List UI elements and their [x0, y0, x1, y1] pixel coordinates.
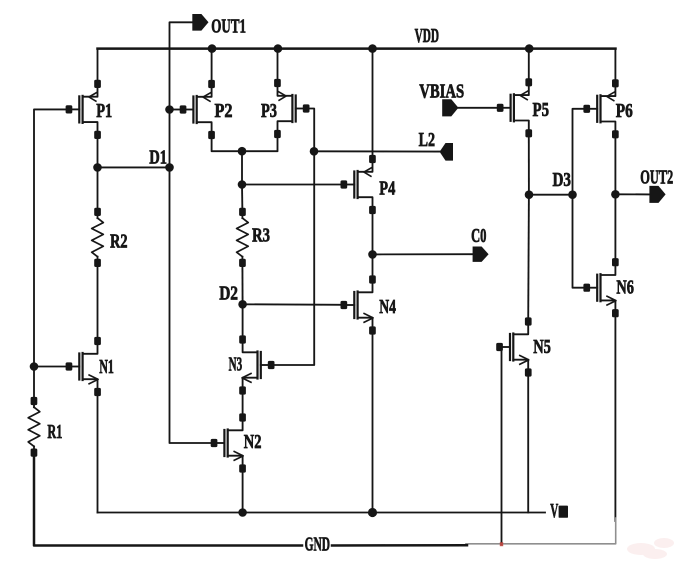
- junction N1 gate tap: [30, 362, 39, 371]
- transistor P4: [341, 155, 396, 214]
- node D3 label: [553, 169, 572, 191]
- node D2 label: [219, 283, 238, 305]
- transistor N1: [66, 337, 114, 396]
- node VDD label: [415, 25, 439, 47]
- wire N3 source to N2 drain: [242, 391, 244, 418]
- wire OUT1 stem: [170, 22, 193, 109]
- svg-text:C0: C0: [471, 225, 486, 247]
- transistor N2: [211, 413, 262, 472]
- artifact red tick: [500, 542, 503, 546]
- node VII label: [550, 500, 568, 522]
- junction D1 left: [93, 163, 102, 172]
- junction CO node: [368, 250, 377, 259]
- svg-text:D2: D2: [219, 283, 238, 305]
- terminal VBIAS: [442, 99, 458, 116]
- junction P4 gate tap: [238, 180, 247, 189]
- svg-text:P2: P2: [215, 100, 233, 122]
- terminal OUT2: [649, 186, 665, 203]
- wire VDD drop to P3 source: [277, 49, 279, 83]
- wire P6 drain to OUT2: [614, 133, 616, 195]
- wire N4 source to VII: [372, 332, 374, 513]
- wire left bias rail top (P1 gate): [34, 109, 69, 366]
- svg-text:N6: N6: [616, 277, 634, 299]
- svg-text:R2: R2: [110, 231, 128, 253]
- svg-text:N3: N3: [229, 353, 243, 375]
- svg-text:R3: R3: [252, 225, 270, 247]
- wire N1 source to VII rail: [97, 392, 99, 513]
- svg-text:D3: D3: [553, 169, 572, 191]
- wire D3 to N6 gate: [573, 195, 587, 288]
- svg-text:D1: D1: [149, 146, 167, 168]
- wire D3 down to N5 drain: [527, 195, 530, 322]
- transistor N6: [583, 258, 634, 317]
- wire N5 gate down to GND: [501, 347, 503, 544]
- node VBIAS label: [419, 81, 464, 103]
- wire VDD drop to P1 source: [97, 49, 99, 84]
- svg-text:P5: P5: [533, 99, 550, 121]
- wire P3 gate to L2 node: [307, 109, 315, 152]
- node GND label: [305, 534, 330, 556]
- wire N1 gate: [34, 366, 70, 368]
- junction D1 right: [165, 163, 174, 172]
- wire D3 to P6 gate: [573, 109, 584, 195]
- svg-text:OUT1: OUT1: [211, 15, 246, 37]
- svg-text:R1: R1: [47, 421, 62, 443]
- junction L2 node: [310, 147, 319, 156]
- node L2 label: [419, 129, 435, 151]
- junction D3 right: [568, 190, 577, 199]
- wire N2 source to VII: [242, 469, 244, 513]
- junction VII-N4: [368, 508, 377, 517]
- wire OUT1 column to D1: [169, 110, 171, 168]
- junction VII-N2: [238, 508, 247, 517]
- wire R2 to N1 drain: [97, 263, 99, 341]
- junction VDD-P2: [208, 44, 217, 53]
- wire VII rail: [98, 512, 546, 514]
- junction P2 gate tap: [165, 105, 174, 114]
- transistor P5: [497, 78, 549, 137]
- node D1 label: [149, 146, 167, 168]
- wire VBIAS to P5 gate: [458, 107, 498, 109]
- wire D3 horizontal: [529, 194, 573, 196]
- svg-text:P6: P6: [616, 100, 633, 122]
- junction D3 left: [525, 190, 534, 199]
- wire D2 to N4 gate: [243, 303, 343, 306]
- wire GND rail: [332, 544, 467, 547]
- wire OUT2 node to N6 drain: [614, 194, 616, 261]
- svg-text:N2: N2: [244, 431, 262, 453]
- wire VDD drop to P5 source: [528, 49, 530, 83]
- svg-text:N1: N1: [99, 356, 114, 378]
- wire VDD drop to P4 source: [372, 49, 374, 160]
- wire R3 to D2: [241, 263, 243, 304]
- svg-text:L2: L2: [419, 129, 435, 151]
- wire OUT2 horizontal: [615, 193, 649, 195]
- junction OUT2: [611, 190, 620, 199]
- wire P5 drain to D3: [528, 133, 530, 195]
- wire VDD drop to P6 source: [614, 49, 616, 84]
- terminal OUT1: [192, 14, 208, 31]
- wire D1 horizontal: [98, 166, 170, 168]
- wire VDD drop to P2 source: [211, 49, 213, 84]
- wire N6 source down: [614, 313, 616, 522]
- wire P1 drain to R2: [97, 134, 99, 212]
- svg-text:VDD: VDD: [415, 25, 439, 47]
- svg-text:V: V: [550, 500, 558, 522]
- transistor N5: [496, 317, 551, 376]
- transistor N4: [341, 275, 397, 334]
- wire bus tap down to P4 gate node: [241, 151, 243, 184]
- node OUT1 label: [211, 15, 246, 37]
- transistor P2: [180, 80, 233, 139]
- svg-text:OUT2: OUT2: [640, 166, 673, 188]
- svg-text:P4: P4: [379, 177, 395, 199]
- svg-text:GND: GND: [305, 534, 330, 556]
- transistor P3: [261, 79, 310, 138]
- wire P4 gate horizontal: [242, 184, 343, 186]
- svg-text:P1: P1: [96, 100, 112, 122]
- wire VDD rail: [98, 47, 616, 50]
- resistor R3: [237, 208, 270, 267]
- wire CO horizontal: [373, 253, 473, 255]
- terminal L2: [440, 143, 453, 161]
- wire P2 gate: [170, 109, 184, 111]
- node C0 label: [471, 225, 486, 247]
- junction D2: [238, 300, 247, 309]
- junction VDD-P4: [368, 44, 377, 53]
- terminal C0: [473, 247, 489, 262]
- wire P4 drain to CO node: [372, 211, 374, 255]
- wire N5 source to VII: [527, 373, 529, 513]
- svg-text:VBIAS: VBIAS: [419, 81, 464, 103]
- node OUT2 label: [640, 166, 673, 188]
- svg-text:N4: N4: [379, 296, 396, 318]
- wire left rail to R1: [33, 367, 35, 402]
- wire R1 to GND corner: [34, 453, 302, 546]
- wire L2 horizontal: [314, 150, 440, 152]
- transistor P6: [583, 79, 632, 138]
- wire D1 column to N2 gate: [170, 167, 215, 443]
- junction VDD-P3: [274, 44, 283, 53]
- svg-text:P3: P3: [261, 100, 277, 122]
- transistor P1: [66, 80, 113, 139]
- wire P2-P3 drain bus: [212, 134, 278, 151]
- wire D2 down to N3 drain: [242, 304, 244, 339]
- wire P4 gate node down to R3: [241, 185, 243, 212]
- transistor N3: [229, 335, 275, 394]
- wire CO node to N4 drain: [372, 254, 374, 279]
- artifact pink smudge: [627, 538, 674, 559]
- resistor R2: [92, 208, 128, 267]
- junction VDD-P5: [525, 44, 534, 53]
- wire N6 source gray segment: [466, 518, 616, 544]
- svg-text:N5: N5: [533, 336, 551, 358]
- wire L2 node down to N3 gate: [271, 151, 314, 365]
- junction drain bus tap: [238, 147, 247, 156]
- resistor R1: [28, 397, 62, 457]
